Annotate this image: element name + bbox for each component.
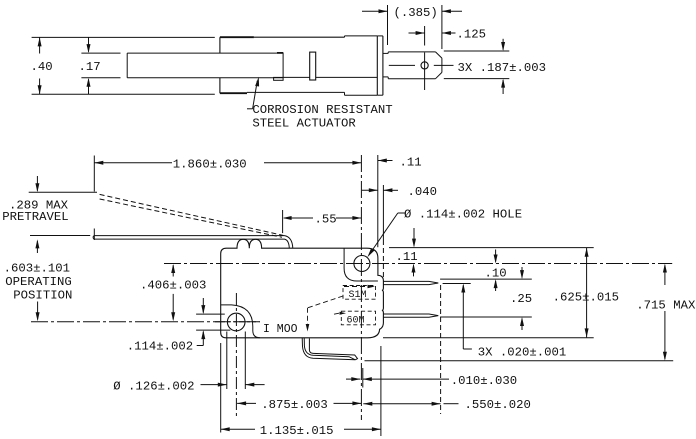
dimension .55 arrows (283, 216, 292, 220)
dimension .125 arrow right (442, 32, 456, 34)
svg-text:STEEL ACTUATOR: STEEL ACTUATOR (252, 117, 356, 131)
svg-text:PRETRAVEL: PRETRAVEL (2, 210, 68, 224)
dimension .625 line (586, 248, 588, 338)
dimension (.385) extension left (387, 5, 389, 45)
dimension .17 arrow down (88, 37, 90, 51)
plunger vertical centerline (424, 26, 426, 46)
dimension .289 arrow up (36, 241, 38, 253)
hinge hole horizontal centerline (164, 263, 672, 265)
leader line to actuator (247, 108, 253, 110)
extension line curl end (362, 368, 364, 388)
dimension .17 arrow up (88, 79, 90, 94)
extension line lower blade bottom (440, 316, 532, 318)
dimension .875 arrow right (334, 402, 362, 404)
svg-text:OPERATING: OPERATING (5, 275, 71, 289)
dimension .289 arrow down (36, 176, 38, 191)
extension line housing right edge up (377, 155, 379, 247)
svg-text:60M: 60M (347, 315, 365, 326)
dimension .010 arrows (346, 378, 360, 380)
svg-text:.406±.003: .406±.003 (140, 279, 206, 293)
extension line body top right (389, 247, 594, 249)
dimension .625 text (553, 291, 619, 305)
vertical centerline through hinge hole (360, 155, 362, 420)
plunger neck (383, 52, 388, 54)
svg-text:POSITION: POSITION (13, 288, 72, 302)
svg-text:.875±.003: .875±.003 (261, 398, 327, 412)
svg-text:I MOO: I MOO (263, 323, 298, 336)
extension line right down (380, 346, 382, 436)
dimension .603 arrow down (37, 302, 39, 320)
dimension .55 extension (282, 210, 284, 233)
dimension .289 extension lower (30, 235, 90, 237)
dimension .040 arrow left (362, 189, 378, 191)
svg-text:Ø .114±.002 HOLE: Ø .114±.002 HOLE (404, 208, 522, 222)
mount hole tangent extension right (244, 332, 246, 390)
housing end cap (376, 36, 378, 95)
lever free position dashed lower (100, 199, 282, 237)
hinge boss outline (344, 248, 378, 281)
dimension .17 extension line lower (81, 77, 120, 79)
svg-text:.55: .55 (315, 212, 337, 226)
dashed reference line terminals (440, 285, 442, 414)
dimension .187 extension lower (444, 78, 510, 80)
top view: switch lower outline line (32, 93, 215, 95)
extension line upper blade bottom (443, 283, 471, 285)
hinge hole (354, 256, 370, 272)
svg-text:.10: .10 (485, 266, 507, 280)
dimension .10 arrow down (495, 250, 497, 262)
svg-text:.550±.020: .550±.020 (465, 398, 531, 412)
plunger hole (421, 62, 428, 69)
lever bend at hinge (285, 236, 293, 249)
dimension .406 arrow up (172, 265, 174, 276)
dimension .187 arrow up (502, 80, 504, 94)
dimension .406 arrow down (172, 294, 174, 319)
svg-text:.625±.015: .625±.015 (553, 291, 619, 305)
dimension 1.860 line with arrows (94, 162, 172, 164)
plunger horizontal centerline (389, 64, 415, 66)
dimension .114 extension lower (196, 329, 230, 331)
svg-text:.114±.002: .114±.002 (127, 339, 193, 353)
dimension (.385) arrow left (362, 10, 388, 12)
lower reference line (365, 360, 674, 362)
hidden marking box 2 (341, 311, 375, 325)
svg-text:1.860±.030: 1.860±.030 (173, 158, 247, 172)
svg-text:.11: .11 (400, 156, 422, 170)
svg-text:.010±.030: .010±.030 (451, 374, 517, 388)
svg-text:.125: .125 (457, 28, 487, 42)
dimension (.385) arrow right (442, 10, 462, 12)
extension line body bottom right (383, 337, 594, 339)
dimension .114 arrow up (202, 332, 204, 346)
svg-text:.040: .040 (408, 185, 438, 199)
dimension .550 line (363, 402, 372, 406)
plunger body (388, 51, 435, 53)
extension line upper blade top (440, 278, 532, 280)
operating position centerline (31, 321, 260, 323)
dimension .10 arrow up (495, 281, 497, 291)
actuator lever (top view) (127, 52, 277, 54)
dimension .25 arrow up (521, 319, 523, 330)
dimension 1.135 arrow left (221, 427, 230, 431)
svg-text:Ø .126±.002: Ø .126±.002 (113, 380, 194, 394)
dimension (.385) extension right (441, 5, 443, 49)
dimension .40 arrow up (39, 37, 41, 53)
dimension .40 arrow down (39, 79, 41, 95)
dimension .289 extension upper (29, 191, 97, 193)
mount hole boss outline (221, 305, 260, 338)
dimension .114 extension upper (196, 313, 225, 315)
svg-text:3X .187±.003: 3X .187±.003 (458, 61, 547, 75)
dimension .11 arrow down (413, 228, 415, 246)
switch housing (top view) (220, 36, 254, 38)
dimension .114 arrow down (202, 298, 204, 313)
leader hole label (371, 213, 398, 252)
dimension .11 arrow up (413, 265, 415, 276)
dimension .25 arrow down (521, 267, 523, 277)
dimension .125 arrow left (409, 32, 425, 34)
svg-text:S1M: S1M (349, 290, 367, 301)
dimension .187 extension upper (444, 50, 510, 52)
dimension .715 arrow down (664, 311, 666, 359)
dimension .040 arrow right (383, 189, 398, 191)
svg-text:.25: .25 (510, 292, 532, 306)
lower terminal blade (383, 314, 438, 317)
mount hole tangent extension left (226, 332, 228, 390)
dimension .875 arrow left (237, 401, 246, 405)
housing slot line (283, 76, 377, 78)
switch body outline (221, 239, 384, 337)
extension line terminal tab edge up (382, 185, 384, 240)
svg-text:.17: .17 (79, 60, 101, 74)
slot bar (310, 52, 316, 80)
mount hole (227, 313, 245, 331)
dimension 1.860 extension left (93, 156, 95, 192)
hidden marking box 1 (343, 286, 376, 300)
top view: switch upper outline line (32, 36, 215, 38)
svg-text:CORROSION RESISTANT: CORROSION RESISTANT (252, 103, 392, 117)
common terminal curl (302, 338, 355, 360)
svg-text:(.385): (.385) (394, 6, 438, 20)
dimension 1.135 arrow right (344, 428, 381, 430)
dimension .187 arrow down (502, 39, 504, 50)
lever free position dashed upper (100, 194, 284, 235)
svg-text:.715 MAX: .715 MAX (636, 298, 696, 312)
lever flat bar (94, 235, 285, 237)
mount hole vertical centerline (235, 293, 237, 417)
dimension .126 arrow left (201, 384, 227, 386)
hidden mechanism leader (308, 296, 343, 308)
dimension 3X .020 leader (462, 285, 464, 349)
dimension .17 extension line upper (81, 52, 120, 54)
svg-text:3X .020±.001: 3X .020±.001 (478, 345, 567, 359)
dimension .126 arrow right (245, 383, 254, 387)
dimension .11 top arrow (378, 160, 393, 162)
svg-text:1.135±.015: 1.135±.015 (260, 424, 334, 438)
upper terminal blade (383, 281, 438, 284)
svg-text:.40: .40 (31, 60, 53, 74)
svg-text:.603±.101: .603±.101 (4, 262, 70, 276)
dimension .715 arrow up (664, 265, 666, 285)
svg-text:.11: .11 (396, 250, 418, 264)
extension line body left down (220, 343, 222, 433)
mount hole crosshair horizontal (215, 321, 260, 323)
